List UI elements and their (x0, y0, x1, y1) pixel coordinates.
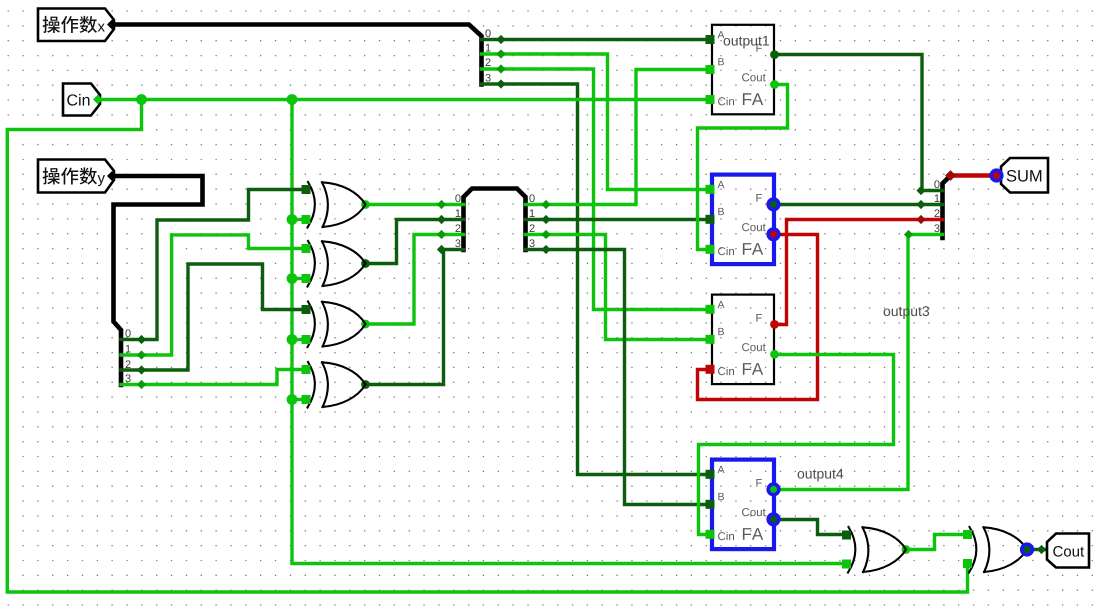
full adder FA2 (712, 175, 774, 265)
wire x1 (482, 54, 711, 190)
wire f4 (775, 235, 943, 490)
wire xor5 out (1027, 548, 1047, 551)
output pin SUM (1001, 158, 1048, 193)
wire f2 (775, 203, 943, 206)
node xor gate XOR3 input pad (302, 305, 311, 314)
node xor gate XOR1 input pad (302, 215, 311, 224)
node spl4 b3 tap (541, 245, 550, 254)
node y1 tap (137, 350, 146, 359)
full adder FA1 (712, 25, 774, 115)
node spl4 b2 tap (541, 230, 550, 239)
label SPL4 bit numbers (529, 194, 534, 247)
label output4 (798, 469, 844, 482)
node sum input ring (991, 170, 1002, 181)
splitter SPL3-SPL4 bridge bus (464, 189, 526, 251)
wire f3 (773, 220, 943, 325)
wire x2 (482, 69, 711, 310)
full adder FA4 (712, 460, 774, 549)
wire cin left rail (7, 100, 967, 593)
node FA2 B pad (706, 215, 715, 224)
FA2 F ring (768, 199, 779, 210)
splitter SPL5 spine (943, 176, 951, 239)
wire cin stub xor3 (292, 338, 303, 341)
node spl4 b0 tap (541, 200, 550, 209)
junction FA1 F dot (770, 50, 779, 59)
wire y3 (121, 370, 303, 385)
junction cin j4 (287, 273, 298, 284)
wire yx0 (526, 70, 711, 205)
node xor gate XOR4 input pad (302, 395, 311, 404)
node xor gate XOR1 input pad (302, 185, 311, 194)
node or gate OR1 input pad (842, 560, 851, 569)
node sum bus tap (945, 170, 956, 181)
node FA3 A pad (706, 305, 715, 314)
wire x3 (482, 84, 711, 475)
wire xor4 out (366, 250, 464, 385)
input pin 操作数y (38, 160, 114, 193)
junction cin j5 (287, 334, 298, 345)
node spl3 b0 tap (437, 200, 446, 209)
wire y0 (121, 190, 303, 340)
label SPL3 bit numbers (455, 194, 460, 247)
node y3 tap (137, 380, 146, 389)
node spl4 b1 tap (541, 215, 550, 224)
xor gate XOR3 (308, 302, 366, 348)
node spl3 b1 tap (437, 215, 446, 224)
node spl5 b0 tap (916, 186, 925, 195)
xor gate XOR5 (969, 527, 1027, 573)
wire x0 (482, 38, 711, 41)
FA4 F ring (768, 484, 779, 495)
node spl3 b3 tap (437, 245, 446, 254)
node FA4 B pad (706, 500, 715, 509)
label output1 (724, 36, 769, 49)
node FA1 Cin pad (706, 95, 715, 104)
wire cin stub xor4 (292, 398, 303, 401)
label SPL1 bit numbers (485, 29, 490, 81)
or gate OR1 (848, 527, 906, 573)
label SPL2 bit numbers (125, 329, 130, 382)
wire yx3 (526, 250, 711, 505)
xor gate XOR4 (308, 362, 366, 408)
node x2 tap (496, 64, 505, 73)
node y2 tap (137, 365, 146, 374)
junction xor3 out dot (361, 320, 370, 329)
junction cin j6 (287, 394, 298, 405)
node xor5 tap (1037, 545, 1046, 554)
node y0 tap (137, 335, 146, 344)
node FA2 A pad (706, 185, 715, 194)
xor gate XOR1 (308, 182, 366, 228)
label output3 (884, 306, 930, 319)
wire xor2 out (366, 220, 464, 264)
junction xor1 out dot (361, 200, 370, 209)
node pin x tip (107, 20, 117, 30)
node or gate OR1 input pad (842, 531, 851, 540)
wire carry1 FA1.Cout to FA2.Cin (698, 85, 788, 250)
node FA1 B pad (706, 65, 715, 74)
node spl3 b2 tap (437, 230, 446, 239)
wire cin stub xor1 (292, 218, 303, 221)
wire xor1 out (366, 203, 464, 206)
node x3 tap (496, 79, 505, 88)
FA4 Cout ring (768, 514, 779, 525)
junction FA1 Cout dot (770, 80, 779, 89)
wire yx2 (526, 235, 711, 340)
junction or1 out dot (902, 545, 911, 554)
node xor gate XOR4 input pad (302, 365, 311, 374)
wire or1 out (906, 535, 966, 550)
node xor gate XOR2 input pad (302, 244, 311, 253)
wire f1 (775, 55, 943, 191)
wire cin main (100, 98, 710, 101)
wire xor3 out (366, 235, 464, 325)
input pin Cin (63, 84, 100, 116)
input pin 操作数x (38, 9, 114, 42)
node xor gate XOR2 input pad (302, 274, 311, 283)
node x0 tap (496, 35, 505, 44)
wire cin mid rail (292, 100, 845, 564)
wire y2 (121, 264, 303, 370)
node spl5 b1 tap (916, 200, 925, 209)
node FA4 Cin pad (706, 530, 715, 539)
wire carry3 FA3.Cout to FA4.Cin (699, 355, 894, 535)
node FA3 Cin pad (706, 365, 715, 374)
xor gate XOR2 (308, 241, 366, 287)
junction cin j3 (287, 214, 298, 225)
node FA3 B pad (706, 335, 715, 344)
node FA1 A pad (706, 35, 715, 44)
junction FA3 F dot (770, 320, 779, 329)
output pin Cout (1047, 534, 1089, 568)
FA2 Cout ring (768, 229, 779, 240)
node xor gate XOR5 input pad (963, 530, 972, 539)
wire bus operand-x (114, 25, 482, 85)
wire cin stub xor2 (292, 277, 303, 280)
node FA2 Cin pad (706, 245, 715, 254)
junction cin j1 (136, 94, 147, 105)
node spl5 b2 tap (916, 215, 925, 224)
junction cin j2 (287, 94, 298, 105)
wire y1 (121, 235, 303, 355)
label SPL5 bit numbers (934, 180, 939, 232)
node xor gate XOR5 input pad (963, 559, 972, 568)
node x1 tap (496, 49, 505, 58)
wire yx1 (526, 218, 711, 221)
node cout input ring (1022, 544, 1033, 555)
wire carry4 FA4.Cout to OR1 (775, 520, 845, 535)
wire carry2 FA2.Cout to FA3.Cin (698, 235, 818, 400)
junction xor4 out dot (361, 380, 370, 389)
node pin cin tip (93, 95, 103, 105)
node FA4 A pad (706, 470, 715, 479)
node pin y tip (107, 171, 117, 181)
node xor gate XOR3 input pad (302, 335, 311, 344)
wire sum bus (951, 173, 997, 177)
wire bus operand-y (114, 176, 203, 385)
junction FA3 Cout dot (770, 350, 779, 359)
full adder FA3 (712, 295, 774, 385)
junction xor2 out dot (361, 259, 370, 268)
node spl5 b3 tap (904, 230, 913, 239)
